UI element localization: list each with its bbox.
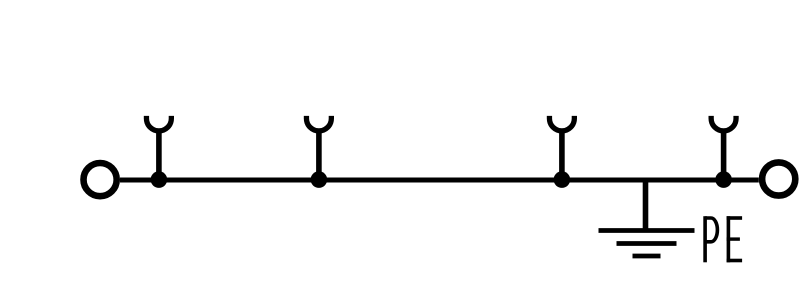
node 3 (junction dot) <box>554 171 571 188</box>
clamp contact 2 <box>306 116 331 180</box>
node 4 (junction dot) <box>715 171 732 188</box>
terminal X1 (left circle) <box>84 163 117 196</box>
clamp contact 4 <box>711 116 736 180</box>
clamp contact 3 <box>549 116 574 180</box>
node 1 (junction dot) <box>151 171 168 188</box>
node 2 (junction dot) <box>311 171 328 188</box>
wire (PE bus) <box>120 178 759 183</box>
terminal X2 (right circle) <box>762 162 795 195</box>
label PE <box>703 216 742 262</box>
ground (PE earth symbol) <box>599 180 695 256</box>
clamp contact 1 <box>146 116 171 180</box>
